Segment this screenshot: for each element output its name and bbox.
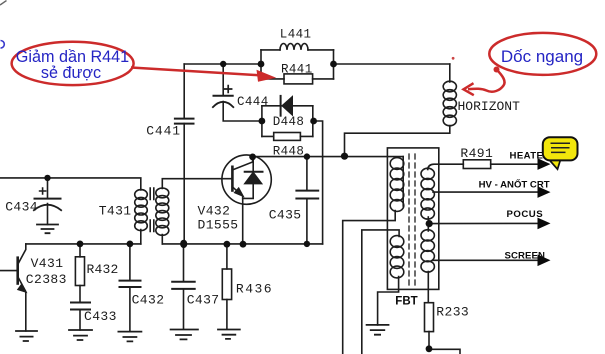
svg-text:R491: R491 (460, 146, 493, 161)
svg-text:HV - ANỐT CRT: HV - ANỐT CRT (479, 178, 550, 190)
svg-text:C441: C441 (146, 124, 181, 139)
svg-text:C434: C434 (5, 200, 38, 215)
svg-text:C437: C437 (187, 293, 220, 308)
svg-text:C432: C432 (132, 293, 165, 308)
svg-text:HORIZONT: HORIZONT (458, 99, 521, 114)
svg-text:C2383: C2383 (26, 272, 67, 287)
svg-text:R432: R432 (87, 262, 119, 277)
svg-text:R436: R436 (236, 282, 273, 297)
svg-text:D1555: D1555 (198, 218, 239, 233)
svg-text:T431: T431 (99, 204, 132, 219)
svg-text:D448: D448 (273, 115, 305, 129)
svg-text:POCUS: POCUS (507, 209, 544, 220)
svg-text:R441: R441 (281, 63, 313, 77)
svg-text:Dốc ngang: Dốc ngang (501, 47, 583, 66)
svg-text:FBT: FBT (395, 295, 417, 307)
svg-text:L441: L441 (280, 28, 312, 42)
svg-text:R233: R233 (436, 305, 469, 320)
svg-text:C444: C444 (237, 95, 269, 109)
svg-text:sẻ được: sẻ được (41, 64, 101, 82)
svg-text:C433: C433 (84, 309, 117, 324)
svg-text:V431: V431 (31, 256, 64, 271)
svg-text:C435: C435 (269, 208, 302, 223)
svg-text:R448: R448 (273, 145, 305, 159)
svg-text:SCREEN: SCREEN (505, 251, 546, 262)
svg-text:V432: V432 (198, 204, 231, 219)
